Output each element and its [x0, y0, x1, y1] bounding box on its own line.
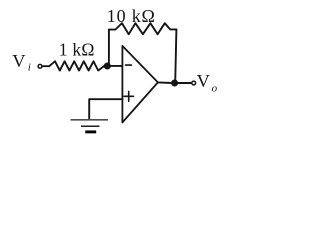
node B output junction — [172, 80, 178, 86]
svg-text:i: i — [28, 62, 31, 74]
svg-text:10 kΩ: 10 kΩ — [107, 6, 156, 26]
plus sign non-inverting input — [124, 91, 134, 101]
label Vi — [12, 51, 31, 73]
svg-text:1 kΩ: 1 kΩ — [59, 39, 95, 59]
input terminal — [38, 64, 42, 68]
wire output lead — [177, 82, 191, 84]
wire input lead — [42, 65, 49, 67]
minus sign inverting input — [126, 64, 132, 66]
output terminal — [192, 81, 196, 85]
op-amp U1 — [122, 46, 157, 123]
resistor R2 10 kOhm feedback — [109, 23, 176, 34]
wire node to op-amp inverting input — [107, 65, 122, 67]
svg-text:V: V — [197, 71, 211, 91]
wire non-inverting input — [89, 99, 122, 119]
resistor R1 1 kOhm — [49, 61, 104, 70]
label Vo — [197, 71, 218, 94]
node A inverting input junction — [104, 63, 110, 69]
wire feedback right vertical — [175, 30, 176, 83]
svg-text:o: o — [212, 82, 218, 94]
svg-text:V: V — [12, 51, 26, 71]
ground — [71, 120, 109, 132]
wire op-amp output — [158, 81, 172, 84]
wire feedback left vertical — [108, 30, 110, 64]
